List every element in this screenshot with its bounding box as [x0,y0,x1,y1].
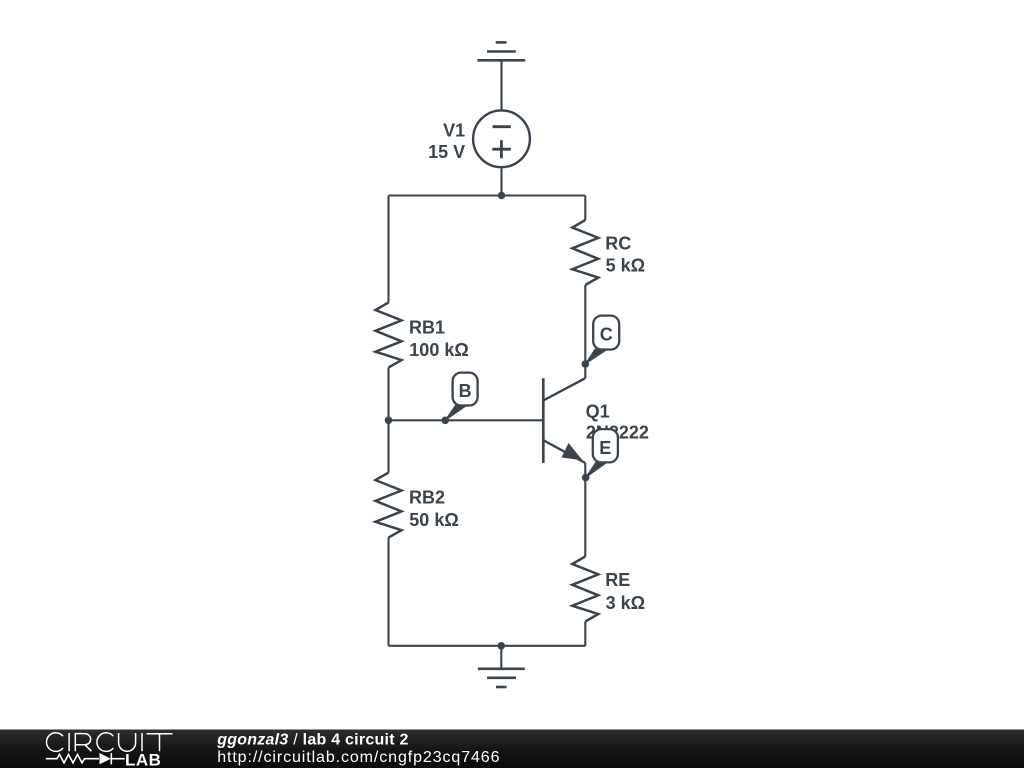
svg-text:RC: RC [605,233,631,253]
power ground (top) [477,42,525,60]
resistor RE [572,557,598,622]
ground (bottom) [478,646,525,687]
svg-text:B: B [459,381,472,401]
node C label [585,316,619,364]
label RC / 5 kΩ [605,233,645,275]
CircuitLab logo: resistor + diode rule [46,753,125,764]
svg-text:5 kΩ: 5 kΩ [606,256,645,276]
svg-text:50 kΩ: 50 kΩ [409,510,458,530]
node E label [586,429,618,478]
svg-text:RB2: RB2 [409,488,445,508]
svg-text:C: C [600,325,613,345]
wire: top ground to V1 [500,60,502,110]
junction: left of node B [385,417,393,425]
wire: V1 to top rail [500,167,502,195]
CircuitLab logo: CIRCUIT wordmark [47,733,173,752]
svg-text:Q1: Q1 [586,401,610,421]
wire: RC to collector corner [584,285,586,378]
wire: emitter to node E [584,463,586,557]
resistor RB1 [376,303,402,368]
wire: left branch down to RB1 [387,196,389,303]
junction: top rail node [498,192,506,200]
wire: RE to bottom rail [584,622,586,646]
transistor Q1 (NPN) [543,378,585,463]
svg-text:ggonzal3 / lab 4 circuit 2: ggonzal3 / lab 4 circuit 2 [216,731,408,748]
wire: RB1 to node B rail [387,368,389,421]
label Q1 / 2N2222 [586,401,649,442]
footer banner [0,730,1024,769]
node B label [445,373,477,421]
svg-text:15 V: 15 V [428,142,465,162]
wire: base rail (node B) [389,419,544,421]
svg-text:RB1: RB1 [409,318,445,338]
node C dot [582,360,590,368]
svg-text:V1: V1 [443,120,465,140]
label RE / 3 kΩ [605,570,645,613]
svg-text:RE: RE [605,570,630,590]
node E dot [582,474,590,482]
svg-text:E: E [599,438,611,458]
svg-text:100 kΩ: 100 kΩ [409,340,468,360]
label RB1 / 100 kΩ [409,318,469,361]
svg-text:3 kΩ: 3 kΩ [606,593,645,613]
node B dot [441,417,449,425]
svg-text:LAB: LAB [125,750,161,768]
voltage source V1 [473,110,530,167]
svg-text:http://circuitlab.com/cngfp23c: http://circuitlab.com/cngfp23cq7466 [217,749,500,766]
label V1 / 15 V [428,120,465,162]
label RB2 / 50 kΩ [409,488,459,530]
resistor RB2 [376,473,402,538]
wire: RB2 to bottom rail [387,538,389,646]
wire: node B to RB2 [387,420,389,472]
wire: bottom rail [389,645,586,647]
junction: bottom rail node [498,642,506,650]
resistor RC [572,220,598,285]
wire: top rail [389,194,586,196]
wire: top rail to RC [584,196,586,221]
